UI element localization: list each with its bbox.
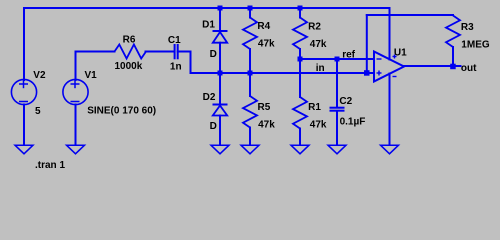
- wire R3 bottom lead: [452, 47, 454, 66]
- capacitor C1: [175, 44, 178, 59]
- svg-text:R2: R2: [308, 22, 321, 33]
- svg-text:SINE(0 170 60): SINE(0 170 60): [87, 106, 156, 117]
- op-amp U1: [374, 52, 404, 82]
- voltage source V1: [63, 79, 88, 104]
- wire R4 top lead: [249, 8, 251, 18]
- svg-text:R4: R4: [257, 21, 270, 32]
- ground R5: [241, 145, 259, 154]
- capacitor C2: [330, 108, 345, 111]
- ground op-amp V-: [381, 145, 399, 154]
- svg-text:47k: 47k: [310, 119, 327, 130]
- svg-text:5: 5: [35, 106, 41, 117]
- wire R2-R1 column crossing in: [299, 59, 301, 97]
- resistor R2: [293, 18, 307, 49]
- wire C2 bottom lead: [336, 111, 338, 145]
- wire C1 to in node: [178, 52, 191, 74]
- svg-text:D: D: [210, 121, 217, 132]
- svg-text:out: out: [461, 63, 477, 74]
- junction node in-feedback: [364, 70, 370, 76]
- resistor R5: [243, 96, 257, 128]
- resistor R6: [115, 45, 147, 59]
- wire op-amp V- to ground: [389, 74, 391, 146]
- svg-text:U1: U1: [394, 48, 407, 59]
- svg-text:R6: R6: [123, 34, 136, 45]
- wire op-amp V+ pin drop: [389, 8, 391, 60]
- wire R2 top lead: [299, 8, 301, 18]
- wire op-amp output: [404, 65, 461, 67]
- ground V2: [15, 145, 33, 154]
- wire D1 bottom lead: [219, 43, 221, 73]
- wire R5 top lead: [249, 73, 251, 96]
- svg-text:D1: D1: [202, 19, 215, 30]
- ground V1: [67, 145, 85, 154]
- junction node rail-R4: [248, 6, 253, 11]
- ground C2: [328, 145, 346, 154]
- wire R1 bottom lead: [299, 129, 301, 146]
- wire V2 bottom lead: [23, 105, 25, 146]
- wire V1 bottom lead: [75, 105, 77, 146]
- svg-text:1MEG: 1MEG: [461, 40, 490, 51]
- junction node ref-R2: [298, 57, 303, 62]
- wire C2 top lead: [336, 59, 338, 107]
- svg-text:47k: 47k: [310, 39, 327, 50]
- wire feedback vertical: [366, 15, 368, 73]
- svg-text:.tran 1: .tran 1: [35, 160, 65, 171]
- wire D2 top lead: [219, 73, 221, 105]
- svg-text:C1: C1: [168, 35, 181, 46]
- svg-text:ref: ref: [342, 49, 355, 60]
- wire feedback horizontal to R3: [367, 14, 453, 16]
- wire R6 to C1: [146, 51, 175, 53]
- wire R4 bottom lead: [249, 49, 251, 73]
- diode D1: [213, 31, 228, 43]
- junction node in-R4R5: [248, 71, 253, 76]
- wire D2 bottom lead: [219, 116, 221, 146]
- junction node rail-R2: [298, 6, 303, 11]
- voltage source V2: [11, 79, 36, 104]
- svg-text:R5: R5: [258, 102, 271, 113]
- resistor R3: [446, 16, 460, 47]
- svg-text:in: in: [316, 63, 325, 74]
- wire in net horizontal: [191, 72, 375, 74]
- junction node in-D: [218, 71, 223, 76]
- wire ref net horizontal: [300, 58, 374, 60]
- svg-text:47k: 47k: [258, 119, 275, 130]
- wire top supply rail: [24, 7, 390, 9]
- resistor R4: [243, 18, 257, 49]
- wire R2 bottom lead to ref: [299, 49, 301, 59]
- wire V2 top lead: [23, 8, 25, 80]
- svg-text:1n: 1n: [170, 61, 182, 72]
- junction node rail-D1: [218, 6, 223, 11]
- svg-text:1000k: 1000k: [115, 61, 143, 72]
- ground D2: [211, 145, 229, 154]
- junction node out: [450, 64, 456, 69]
- svg-text:D: D: [210, 49, 217, 60]
- svg-text:0.1µF: 0.1µF: [340, 116, 366, 127]
- wire V1 to R6: [76, 51, 115, 53]
- wire D1 top lead: [219, 8, 221, 31]
- resistor R1: [293, 97, 307, 129]
- diode D2: [213, 105, 228, 116]
- svg-text:R3: R3: [461, 22, 474, 33]
- wire R5 bottom lead: [249, 128, 251, 146]
- svg-text:V1: V1: [85, 70, 98, 81]
- svg-text:C2: C2: [339, 96, 352, 107]
- wire V1 top lead: [75, 52, 77, 81]
- svg-text:D2: D2: [203, 92, 216, 103]
- svg-text:R1: R1: [308, 102, 321, 113]
- svg-text:V2: V2: [33, 70, 46, 81]
- svg-text:47k: 47k: [258, 38, 275, 49]
- junction node ref-C2: [335, 57, 340, 62]
- ground R1: [291, 145, 309, 154]
